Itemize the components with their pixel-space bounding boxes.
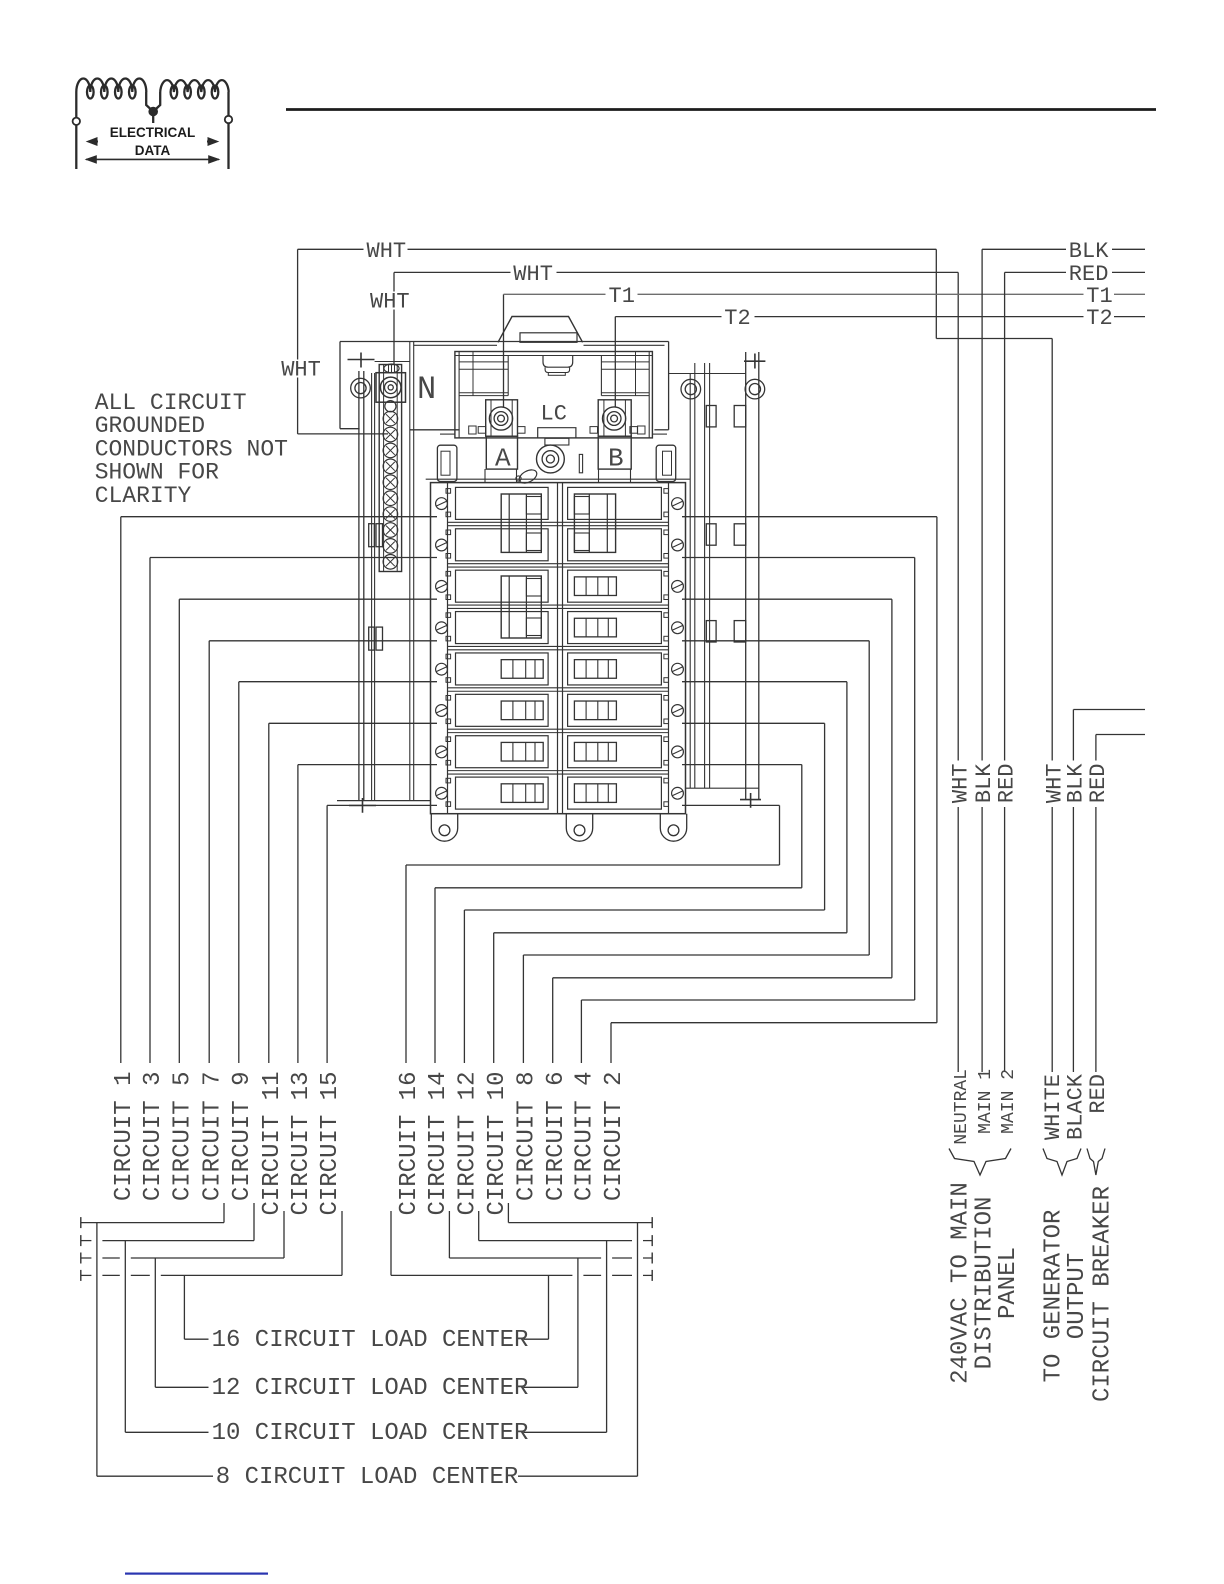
svg-text:LC: LC: [541, 402, 567, 427]
logo center tap wires: [146, 92, 160, 112]
svg-text:CIRCUIT 13: CIRCUIT 13: [288, 1072, 315, 1216]
cover block top-left vent panel: [459, 352, 508, 396]
svg-text:SHOWN FOR: SHOWN FOR: [95, 460, 219, 486]
svg-text:BLK: BLK: [972, 763, 997, 803]
breaker rail screws left: [436, 498, 448, 799]
cover bottom center notch: [538, 428, 576, 439]
terminal B screw center: [611, 415, 618, 422]
breaker face row 1 right: [568, 487, 662, 519]
logo center tap junction dot: [149, 107, 158, 116]
right bracket screw outer: [745, 379, 765, 399]
logo short arrow right: [207, 139, 217, 145]
neutral lug screw mid: [385, 381, 397, 393]
brace circuit breaker: [1087, 1149, 1105, 1176]
header rule line: [286, 108, 1156, 111]
wire CIRCUIT 5: [179, 599, 437, 1063]
breaker handle row 4 right: [574, 618, 616, 637]
rail pips: [446, 489, 669, 807]
right inner screw inner: [685, 384, 696, 395]
svg-text:CIRCUIT 7: CIRCUIT 7: [199, 1072, 226, 1202]
svg-text:WHT: WHT: [281, 357, 321, 382]
right bracket clip b y=523.8: [734, 524, 746, 545]
svg-text:GROUNDED: GROUNDED: [95, 413, 205, 439]
neutral lug screw head top: [384, 364, 399, 373]
left bracket clip lower b: [376, 627, 383, 650]
logo left lead upper: [75, 92, 77, 118]
cover flange tabs row: [469, 426, 645, 434]
logo left terminal circle: [73, 118, 80, 125]
svg-text:RED: RED: [1086, 1074, 1111, 1114]
neutral bar body: [379, 365, 401, 572]
neutral bar top empty screw hole: [385, 401, 396, 412]
back plate top edge left: [375, 361, 410, 363]
wire CIRCUIT 2: [611, 517, 937, 1063]
wire CIRCUIT 16: [406, 805, 780, 1063]
bus 10-circuit right: [479, 1211, 653, 1432]
back plate top edge right: [669, 373, 746, 375]
svg-text:WHT: WHT: [367, 239, 407, 264]
terminal A screw outer: [489, 407, 512, 430]
breaker face row 4 left: [456, 612, 549, 644]
mounting tab x=579.5: [566, 814, 592, 841]
svg-text:CIRCUIT 6: CIRCUIT 6: [543, 1072, 570, 1202]
left bracket clip upper b: [376, 524, 383, 547]
svg-text:RED: RED: [1086, 764, 1111, 804]
left mounting bracket rail: [359, 371, 364, 800]
center mounting screw center: [546, 455, 554, 463]
svg-text:CIRCUIT 11: CIRCUIT 11: [259, 1072, 286, 1216]
breaker array rails: [448, 483, 669, 814]
mounting tab x=444.5: [431, 814, 457, 841]
svg-text:PANEL: PANEL: [995, 1247, 1022, 1319]
right inner screw outer: [681, 379, 701, 399]
wire CIRCUIT 12: [464, 723, 824, 1063]
leader 8 circuit load center: [97, 1475, 638, 1477]
svg-text:CIRCUIT 3: CIRCUIT 3: [140, 1072, 167, 1202]
terminal B screw mid: [607, 412, 621, 426]
breaker face row 1 left: [456, 487, 549, 519]
svg-text:CIRCUIT 10: CIRCUIT 10: [484, 1072, 511, 1216]
svg-text:CIRCUIT BREAKER: CIRCUIT BREAKER: [1089, 1186, 1116, 1402]
breaker handle row 5 left: [501, 660, 543, 679]
svg-text:ALL CIRCUIT: ALL CIRCUIT: [95, 390, 247, 416]
bus 10-circuit left: [81, 1203, 254, 1432]
svg-text:WHITE: WHITE: [1041, 1074, 1066, 1140]
bus 16-circuit left: [81, 1211, 342, 1339]
svg-text:CIRCUIT 5: CIRCUIT 5: [169, 1072, 196, 1202]
terminal B label box: [598, 436, 631, 469]
svg-text:CIRCUIT 2: CIRCUIT 2: [601, 1072, 628, 1202]
svg-text:CIRCUIT 15: CIRCUIT 15: [317, 1072, 344, 1216]
mounting tab hole x=444.5: [439, 825, 450, 836]
wire RED (main 2): [1005, 272, 1145, 1072]
wire BLK (generator output black): [1073, 710, 1145, 1073]
logo left lead lower: [75, 125, 77, 169]
terminal B screw outer: [603, 407, 626, 430]
logo short arrow left: [88, 139, 98, 145]
neutral lug screw outer: [380, 377, 401, 398]
breaker face row 5 left: [456, 653, 549, 685]
cover bottom center tab: [545, 438, 569, 445]
center mounting screw outer: [537, 445, 565, 473]
breaker rail screws right: [672, 498, 684, 799]
bottom rail left: [337, 800, 431, 802]
wire CIRCUIT 14: [435, 765, 802, 1063]
svg-text:DATA: DATA: [135, 143, 171, 158]
svg-text:CLARITY: CLARITY: [95, 483, 192, 509]
wire CIRCUIT 9: [239, 682, 437, 1063]
main terminal B block: [598, 400, 631, 436]
breaker handle row 8 right: [574, 784, 616, 803]
breaker face row 8 left: [456, 777, 549, 809]
cover center latch: [543, 356, 573, 376]
svg-text:RED: RED: [995, 764, 1020, 804]
svg-text:MAIN 1: MAIN 1: [976, 1069, 996, 1134]
breaker face row 6 left: [456, 694, 549, 726]
svg-text:CIRCUIT 9: CIRCUIT 9: [229, 1072, 256, 1202]
leader 12 circuit load center: [155, 1386, 578, 1388]
mounting tab hole x=673.5: [668, 825, 679, 836]
breaker face row 5 right: [568, 653, 662, 685]
breaker handle row 6 right: [574, 701, 616, 720]
wire CIRCUIT 7: [209, 641, 437, 1063]
note: all circuit grounded conductors not shown for clarity: [95, 390, 288, 509]
interior slot bar: [579, 454, 582, 472]
right bracket clip a y=405.5: [706, 406, 716, 427]
label TO GENERATOR OUTPUT: [1040, 1210, 1091, 1383]
breaker face row 3 right: [568, 570, 662, 602]
left bracket top cross: [348, 353, 375, 368]
cover hanger tab slot: [520, 333, 577, 343]
left bracket clip lower a: [369, 627, 375, 650]
terminal A screw mid: [494, 412, 508, 426]
svg-text:CONDUCTORS NOT: CONDUCTORS NOT: [95, 436, 288, 462]
brace 240VAC group: [949, 1149, 1011, 1176]
leader 16 circuit load center: [184, 1338, 548, 1340]
double-pole breaker handle rows1-2 right: [574, 494, 615, 552]
wire CIRCUIT 3: [150, 558, 437, 1064]
breaker row separators: [448, 522, 669, 774]
svg-text:T1: T1: [609, 284, 635, 309]
left bracket screw outer: [351, 378, 371, 398]
svg-text:ELECTRICAL: ELECTRICAL: [110, 125, 196, 140]
cover bottom step edges: [440, 433, 667, 435]
mounting tab x=673.5: [660, 814, 686, 841]
right bracket clip a y=620.6: [706, 621, 716, 642]
logo right lead lower: [227, 123, 229, 169]
footer link line: [125, 1573, 268, 1575]
leader 10 circuit load center: [125, 1431, 606, 1433]
svg-text:CIRCUIT 14: CIRCUIT 14: [425, 1072, 452, 1216]
svg-text:T2: T2: [1086, 306, 1112, 331]
svg-text:8 CIRCUIT LOAD CENTER: 8 CIRCUIT LOAD CENTER: [216, 1464, 518, 1491]
double-pole breaker handle rows1-2 left: [501, 494, 541, 552]
wire WHT (neutral lug to main panel): [394, 272, 958, 1072]
breaker array outer frame: [431, 483, 686, 814]
svg-text:RED: RED: [1069, 262, 1109, 287]
load center cover block outer: [455, 352, 653, 438]
svg-text:WHT: WHT: [513, 262, 553, 287]
deck top edge: [426, 478, 690, 480]
breaker handle row 3 right: [574, 577, 616, 596]
right bracket bottom cross: [740, 793, 761, 808]
breaker face row 3 left: [456, 570, 549, 602]
breaker handle row 5 right: [574, 660, 616, 679]
neutral bar terminal screws column: [383, 411, 398, 569]
svg-text:CIRCUIT 12: CIRCUIT 12: [455, 1072, 482, 1216]
wire WHT (neutral bar to generator, row 1): [298, 249, 1053, 1072]
svg-text:CIRCUIT 16: CIRCUIT 16: [396, 1072, 423, 1216]
logo right coil winding: [160, 80, 229, 92]
bus 8-circuit left: [81, 1203, 224, 1476]
wire T1 (breaker A to right): [504, 294, 1146, 407]
right bracket clip a y=523.8: [706, 524, 716, 545]
double-pole breaker handle rows3-4 left: [501, 576, 541, 638]
logo center tap stub: [152, 112, 154, 124]
pawl pivot: [516, 476, 521, 481]
breaker handle row 7 left: [501, 742, 543, 761]
svg-text:BLACK: BLACK: [1064, 1073, 1089, 1140]
panel cover outline: [340, 342, 669, 430]
cover top inner edge: [414, 344, 665, 346]
bottom rail right: [686, 787, 759, 789]
terminal block lower side lines: [485, 469, 631, 483]
load center cover block inner lines: [455, 352, 653, 438]
svg-text:12 CIRCUIT LOAD CENTER: 12 CIRCUIT LOAD CENTER: [212, 1375, 529, 1402]
wire CIRCUIT 13: [298, 765, 437, 1063]
back plate left edge lines: [372, 342, 414, 800]
svg-text:WHT: WHT: [370, 289, 410, 314]
svg-text:MAIN 2: MAIN 2: [999, 1069, 1019, 1134]
right bracket top cross: [744, 354, 765, 369]
left bracket screw inner: [355, 383, 366, 394]
neutral bar inner channel lines: [384, 365, 398, 572]
breaker face row 2 right: [568, 529, 662, 561]
logo left coil winding: [76, 79, 146, 93]
right mounting bracket rail: [746, 352, 759, 800]
cover block top-right vent panel: [601, 352, 649, 396]
right back plate edge lines: [690, 363, 709, 788]
svg-text:T1: T1: [1086, 284, 1112, 309]
breaker face row 4 right: [568, 612, 662, 644]
svg-text:N: N: [417, 371, 436, 408]
wire CIRCUIT 6: [553, 599, 892, 1063]
wire CIRCUIT 4: [581, 558, 914, 1064]
neutral main lug block N: [376, 373, 406, 403]
svg-text:T2: T2: [724, 306, 750, 331]
wire CIRCUIT 15: [327, 805, 437, 1063]
right bracket clip b y=620.6: [734, 621, 746, 642]
right bracket screw inner: [749, 384, 760, 395]
bus 16-circuit right: [391, 1211, 652, 1339]
breaker handle row 8 left: [501, 784, 543, 803]
label 240VAC TO MAIN DISTRIBUTION PANEL: [948, 1182, 1023, 1384]
bus 8-circuit right: [508, 1203, 652, 1476]
svg-text:WHT: WHT: [948, 764, 973, 804]
wire T2 (breaker B to right): [615, 317, 1145, 407]
wire CIRCUIT 10: [494, 682, 847, 1063]
svg-text:16 CIRCUIT LOAD CENTER: 16 CIRCUIT LOAD CENTER: [212, 1327, 529, 1354]
terminal A label box: [486, 436, 517, 469]
svg-text:NEUTRAL: NEUTRAL: [952, 1069, 972, 1145]
svg-text:CIRCUIT 1: CIRCUIT 1: [111, 1072, 138, 1202]
logo right terminal circle: [225, 116, 232, 123]
breaker handle row 6 left: [501, 701, 543, 720]
wire CIRCUIT 8: [523, 641, 869, 1063]
svg-text:OUTPUT: OUTPUT: [1064, 1253, 1091, 1339]
terminal A screw center: [498, 415, 505, 422]
bus 12-circuit right: [449, 1211, 652, 1387]
brace generator output group: [1043, 1149, 1081, 1176]
left bracket clip upper a: [369, 524, 375, 547]
interior pawl clip: [517, 467, 539, 486]
deck side cheek right: [656, 445, 676, 481]
breaker face row 6 right: [568, 694, 662, 726]
cover top hanger tab: [498, 317, 583, 343]
svg-text:B: B: [608, 444, 624, 474]
left bracket bottom cross: [349, 798, 376, 813]
breaker face row 7 left: [456, 736, 549, 768]
breaker face row 2 left: [456, 529, 549, 561]
wire CIRCUIT 11: [269, 723, 437, 1063]
svg-text:A: A: [495, 444, 511, 474]
breaker face row 7 right: [568, 736, 662, 768]
wire RED (generator circuit breaker red): [1096, 735, 1145, 1073]
svg-text:CIRCUIT 4: CIRCUIT 4: [572, 1072, 599, 1202]
breaker face row 8 right: [568, 777, 662, 809]
logo long double-headed arrow: [86, 156, 219, 162]
svg-text:BLK: BLK: [1064, 763, 1089, 803]
logo right lead upper: [227, 92, 229, 116]
mounting tab hole x=579.5: [574, 825, 585, 836]
svg-text:BLK: BLK: [1069, 239, 1109, 264]
deck side cheek left: [437, 445, 457, 481]
generator winding logo: ELECTRICAL DATA: [73, 79, 233, 170]
wire CIRCUIT 1: [121, 517, 437, 1063]
wire BLK (main 1): [982, 249, 1145, 1072]
bus 12-circuit left: [81, 1211, 284, 1387]
breaker handle row 7 right: [574, 742, 616, 761]
right bracket clip b y=405.5: [734, 406, 746, 427]
svg-text:10 CIRCUIT LOAD CENTER: 10 CIRCUIT LOAD CENTER: [212, 1420, 529, 1447]
neutral lug screw center: [388, 385, 393, 390]
main terminal A block: [486, 400, 518, 436]
svg-text:CIRCUIT 8: CIRCUIT 8: [514, 1072, 541, 1202]
center mounting screw mid: [542, 451, 559, 468]
